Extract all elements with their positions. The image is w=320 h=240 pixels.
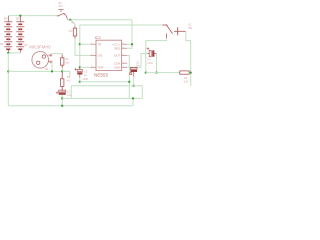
node battery2 top junction	[19, 14, 21, 16]
node OUT rail L1 junction	[128, 81, 130, 83]
wire RES pin stub	[127, 44, 132, 48]
capacitor C1	[59, 90, 66, 98]
capacitor C3 plus sign	[74, 68, 77, 71]
svg-text:R5: R5	[184, 76, 188, 80]
capacitor C2h plus sign	[147, 47, 150, 50]
wire S1 lever bottom	[146, 38, 167, 72]
wire battery bottoms	[8, 52, 20, 54]
svg-text:C1: C1	[67, 89, 71, 93]
wire after S2	[67, 19, 132, 21]
wire rail D to bottom rail riser x133	[132, 98, 134, 105]
node C2h riser junction	[155, 71, 157, 73]
IC2 pin labels	[98, 42, 121, 69]
node C1 bottom rail junction	[61, 105, 63, 107]
svg-text:TR: TR	[98, 42, 102, 46]
switch S1	[162, 25, 186, 38]
wire C1 bottom	[61, 95, 63, 106]
wire trigger vertical to THR	[79, 44, 81, 67]
node R1 top junction	[69, 19, 71, 21]
node VCC junction	[131, 43, 133, 45]
wire bottom rail	[8, 105, 133, 107]
wire OUT pin stub and riser	[127, 55, 129, 98]
IC2 555 box	[96, 40, 122, 70]
wire rail D	[62, 97, 142, 99]
svg-text:GND: GND	[83, 77, 89, 81]
capacitor C2 vertical plates	[130, 68, 137, 70]
wire C2h right riser	[156, 54, 158, 73]
switch S2	[58, 9, 68, 19]
wire mid-left rail	[8, 70, 70, 72]
svg-text:47k: 47k	[68, 29, 73, 33]
svg-text:RES: RES	[114, 46, 120, 50]
capacitor C2h horizontal	[148, 50, 157, 56]
node C1 rail D junction	[61, 97, 63, 99]
capacitor C2 plus circle	[130, 73, 132, 75]
wire left vertical rail	[7, 53, 9, 106]
wire VCC+ pin stub	[127, 43, 132, 45]
wire y72.6 rail to R5	[146, 72, 180, 74]
connector X1 pin stubs	[48, 55, 50, 62]
node divider junction	[61, 70, 63, 72]
svg-text:DIS: DIS	[98, 54, 103, 58]
wire R3 bottom	[61, 68, 63, 71]
svg-text:C4: C4	[147, 57, 151, 61]
svg-text:THR: THR	[98, 65, 104, 69]
svg-text:10k: 10k	[65, 61, 70, 65]
svg-text:B1: B1	[4, 16, 8, 20]
resistor R4	[61, 71, 64, 91]
IC2 pin numbers	[91, 43, 125, 68]
resistor R3	[61, 54, 64, 68]
node C2 L2 junction	[133, 85, 135, 87]
node x133 rail D junction	[132, 97, 134, 99]
svg-text:3V: 3V	[0, 42, 4, 46]
svg-text:MIC3FMH0: MIC3FMH0	[29, 44, 51, 49]
node C3 rail junction	[79, 81, 81, 83]
wire diagonal to R1	[70, 20, 75, 27]
svg-text:SW: SW	[188, 26, 193, 30]
capacitor C1 plus sign	[56, 92, 59, 95]
svg-text:SW: SW	[58, 4, 63, 8]
capacitor C2 bottom pin	[133, 72, 135, 77]
svg-text:R1: R1	[71, 20, 75, 24]
wire R5 right	[189, 72, 191, 74]
node battery1 bottom junction	[7, 52, 9, 54]
wire X1 bottom pin down	[51, 62, 53, 72]
wire GND riser to C2h left pin	[141, 54, 149, 68]
capacitor C3	[77, 67, 82, 77]
wire X1 top pin to R3	[52, 54, 62, 56]
node R5 riser junction	[190, 71, 192, 73]
svg-text:GND: GND	[114, 65, 120, 69]
wire GND stub	[127, 66, 141, 68]
wire R1 bottom to DIS	[75, 39, 90, 56]
battery B1	[4, 16, 12, 53]
resistor R5	[180, 71, 189, 74]
connector X1 pin end circles	[50, 54, 52, 56]
svg-text:R3: R3	[65, 57, 69, 61]
svg-text:100u: 100u	[147, 61, 153, 65]
svg-text:100: 100	[184, 80, 189, 84]
svg-text:C3: C3	[84, 70, 88, 74]
svg-text:IC2: IC2	[95, 35, 101, 40]
wire x71.3 vertical	[70, 86, 72, 99]
svg-text:10u: 10u	[136, 64, 141, 68]
wire rail D right riser	[141, 86, 143, 99]
wire THR stub	[80, 66, 91, 68]
wire rail L2	[71, 85, 142, 87]
wire top rail left	[8, 15, 57, 17]
svg-text:B2: B2	[16, 16, 20, 20]
node left rail / mid rail junction	[7, 70, 9, 72]
svg-text:S1: S1	[188, 22, 192, 26]
battery B2	[16, 16, 24, 53]
wire S1 NO contact down	[186, 31, 191, 86]
svg-text:3V: 3V	[24, 43, 28, 47]
node riser A / y72.6 junction	[145, 71, 147, 73]
node TR junction	[79, 43, 81, 45]
svg-text:10u: 10u	[67, 93, 72, 97]
wire C3 bottom	[79, 78, 81, 82]
svg-text:NE555: NE555	[94, 72, 108, 77]
wire rail L1	[80, 81, 130, 83]
wire C2 bottom to L2	[133, 77, 135, 86]
connector X1 circle	[32, 52, 49, 69]
IC2 pin stubs	[90, 44, 127, 67]
svg-text:X1: X1	[45, 67, 49, 71]
resistor R1	[73, 26, 76, 38]
wire TR stub	[80, 43, 91, 45]
svg-text:4k7: 4k7	[67, 78, 72, 82]
node THR junction	[79, 66, 81, 68]
wire VCC vertical riser	[131, 20, 133, 45]
connector X1 pin circles	[42, 55, 45, 58]
node X1 rail junction	[51, 70, 53, 72]
wire trigger net corner to S1	[80, 25, 163, 44]
wire junction elbow	[62, 71, 70, 76]
svg-text:OUT: OUT	[114, 54, 120, 58]
